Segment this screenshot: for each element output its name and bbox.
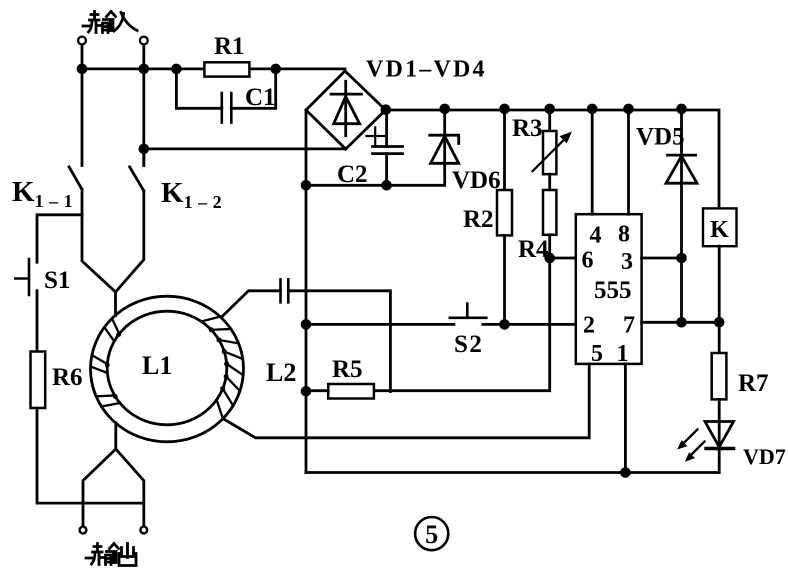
svg-text:R1: R1 — [214, 33, 245, 60]
left rail vertical — [305, 110, 308, 473]
capacitor on L2 wire — [281, 279, 289, 302]
bridge rectifier VD1-VD4 diamond — [306, 71, 386, 149]
wire R2 bottom — [503, 235, 506, 324]
L1 tap dots — [105, 332, 121, 399]
resistor R6 — [31, 352, 46, 409]
node K1-2 top — [140, 145, 148, 153]
svg-text:VD1–VD4: VD1–VD4 — [366, 57, 487, 83]
node neg-rail left — [302, 181, 310, 189]
toroid bottom stem — [114, 423, 117, 449]
node R2 at pin2 wire — [501, 321, 509, 329]
node at input-right — [140, 65, 148, 73]
输入 input label — [83, 12, 137, 33]
wire input-right vertical — [142, 45, 145, 166]
diode VD5 — [666, 109, 697, 322]
node pin8 top — [625, 105, 633, 113]
wire pin4 — [591, 109, 594, 214]
node C1 right — [272, 65, 280, 73]
svg-text:VD7: VD7 — [743, 444, 786, 469]
wire pin5 down and left — [223, 364, 589, 438]
node pin7 right — [715, 318, 723, 326]
svg-text:L1: L1 — [142, 351, 172, 380]
wire R2 top — [503, 109, 506, 190]
wire R7 to VD7 — [718, 399, 721, 472]
svg-text:R6: R6 — [52, 364, 83, 391]
svg-text:8: 8 — [618, 222, 630, 248]
svg-text:3: 3 — [621, 249, 633, 275]
node VD5 top — [678, 105, 686, 113]
wire input-left vertical — [81, 45, 84, 166]
node S2 wire at left rail — [302, 321, 310, 329]
wire pin2 row with S2 gap — [306, 323, 576, 326]
bridge inner diode — [331, 81, 361, 135]
resistor R1 — [204, 62, 249, 76]
svg-text:5: 5 — [591, 341, 603, 367]
wire K bottom to R7 — [718, 246, 721, 353]
wire pin1 down — [624, 364, 627, 473]
node R5 left — [302, 387, 310, 395]
wire R3 top — [548, 109, 551, 131]
svg-text:R2: R2 — [463, 206, 494, 233]
svg-text:2: 2 — [583, 313, 595, 339]
svg-text:7: 7 — [623, 313, 635, 339]
wire pin6 — [550, 257, 576, 260]
svg-text:K1–2: K1–2 — [161, 177, 227, 212]
capacitor C1 — [222, 93, 232, 123]
toroid L1 outer — [91, 296, 244, 442]
winding L2 on toroid right — [201, 317, 243, 419]
L2 coupling capacitor wire — [221, 291, 390, 392]
wire R5 left to rail — [306, 389, 328, 392]
svg-text:R7: R7 — [738, 370, 769, 397]
node bridge right — [382, 106, 390, 114]
node pin7 VD5 — [678, 318, 686, 326]
svg-text:555: 555 — [594, 277, 632, 304]
LED VD7 — [705, 422, 734, 448]
capacitor C2 polarized — [373, 147, 403, 154]
svg-text:4: 4 — [590, 223, 602, 249]
node C2 bottom — [383, 181, 391, 189]
node pin6 — [546, 254, 554, 262]
svg-text:S2: S2 — [454, 331, 483, 358]
resistor R2 — [497, 190, 512, 235]
svg-text:R4: R4 — [518, 236, 549, 263]
svg-text:VD5: VD5 — [636, 124, 685, 151]
svg-text:5: 5 — [425, 520, 438, 549]
wire R3-R4 — [548, 174, 551, 190]
svg-text:K1–1: K1–1 — [12, 176, 78, 211]
wire pin7 — [642, 321, 720, 324]
wire pin6 node down to R5 row — [374, 258, 550, 391]
wire C2 bottom — [385, 154, 388, 186]
node pin1 ground — [622, 469, 630, 477]
IC 555 box — [576, 214, 642, 364]
wire pin3 — [642, 257, 682, 260]
bottom rail horizontal — [306, 471, 719, 474]
toroid top stem — [114, 292, 117, 316]
terminal input-left — [78, 37, 86, 45]
输出 output label — [86, 544, 136, 566]
resistor R4 — [543, 190, 556, 235]
wire negative row (left rail to VD6) — [306, 163, 445, 185]
node at input-left — [78, 65, 86, 73]
svg-text:VD6: VD6 — [452, 167, 501, 194]
figure number 5 circled — [415, 517, 448, 550]
wire R4 bottom to pin6 node — [548, 235, 551, 258]
node VD6 top — [441, 105, 449, 113]
C2 plus sign — [366, 127, 384, 145]
diode VD6 zener — [430, 110, 459, 163]
svg-text:R3: R3 — [512, 115, 543, 142]
switch S2 — [450, 304, 487, 318]
wire S1 branch — [37, 215, 82, 262]
node R2 top — [501, 105, 509, 113]
wire top horizontal to R1 and bridge — [82, 68, 345, 71]
terminal output-left — [80, 527, 87, 534]
node R3 top — [546, 105, 554, 113]
resistor R5 — [328, 384, 374, 399]
wire C1 branch — [176, 69, 275, 108]
output fork — [83, 449, 144, 526]
wire pin8 — [627, 109, 630, 214]
resistor R7 — [712, 353, 727, 399]
top rail horizontal — [386, 110, 719, 208]
VD7 arrow 1 — [681, 430, 697, 446]
switch K1-1 — [69, 167, 115, 292]
terminal input-right — [140, 37, 148, 45]
wire R6 bottom to output — [37, 408, 144, 503]
node VD5 pin3 — [678, 254, 686, 262]
winding L2 inner dots — [209, 327, 229, 391]
R3 arrow — [533, 138, 567, 172]
terminal output-right — [140, 527, 147, 534]
L1 taps left side — [91, 318, 120, 406]
wire K1-2 to bridge bottom — [144, 147, 346, 150]
toroid L1 inner — [107, 311, 227, 425]
svg-text:6: 6 — [582, 248, 594, 274]
wire C2 top — [385, 110, 388, 147]
node C1 left — [173, 65, 181, 73]
wire S1 to R6 — [36, 291, 39, 352]
svg-text:K: K — [710, 217, 729, 243]
svg-text:S1: S1 — [44, 267, 70, 294]
switch S1 — [15, 259, 29, 295]
switch K1-2 — [116, 149, 144, 292]
node pin4 top — [588, 105, 596, 113]
svg-text:R5: R5 — [332, 356, 363, 383]
VD7 arrow 2 — [689, 442, 705, 458]
svg-text:L2: L2 — [266, 358, 296, 387]
variable resistor R3 — [543, 131, 556, 174]
svg-text:C1: C1 — [245, 84, 276, 111]
relay K box — [703, 208, 737, 246]
